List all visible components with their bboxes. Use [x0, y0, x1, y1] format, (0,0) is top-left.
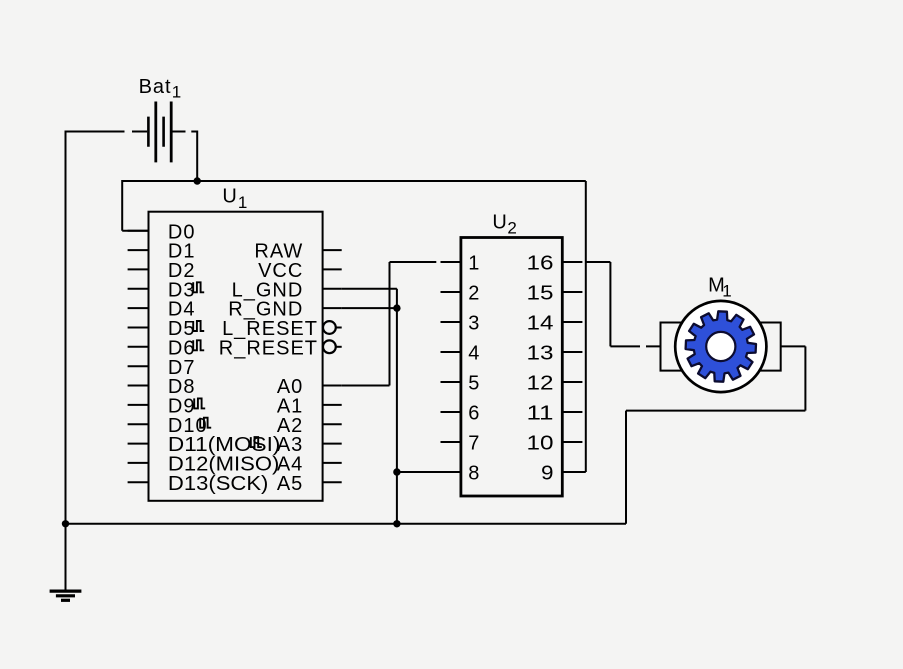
- wire battery negative left segment: [66, 131, 148, 133]
- wire U2 pin16 to motor left terminal: [586, 262, 661, 346]
- svg-text:13: 13: [527, 343, 554, 365]
- label U1: [222, 186, 247, 212]
- pwm glyph D10: [200, 418, 211, 428]
- motor right terminal bracket: [759, 323, 781, 371]
- motor M1: [661, 301, 781, 392]
- motor left terminal bracket: [661, 323, 684, 371]
- node junction pin8: [393, 468, 400, 475]
- pwm glyph D9: [194, 398, 205, 408]
- wire left ground rail: [65, 131, 67, 591]
- pwm glyph D11: [251, 437, 262, 447]
- motor body circle: [675, 301, 766, 392]
- motor gear: [686, 311, 756, 381]
- U1 left pin labels: [168, 221, 281, 495]
- U2 left pin numbers: [468, 253, 480, 485]
- wire A0 to U2 pin 1: [342, 262, 437, 386]
- svg-text:16: 16: [527, 253, 554, 275]
- wire battery positive to junction: [172, 131, 197, 182]
- node junction gnd line / bottom rail: [393, 520, 400, 527]
- node junction left rail / bottom rail: [62, 520, 69, 527]
- svg-text:A5: A5: [277, 473, 303, 495]
- svg-text:11: 11: [527, 403, 554, 425]
- node junction R_GND: [393, 304, 400, 311]
- svg-text:7: 7: [468, 433, 480, 455]
- label U2: [492, 212, 516, 238]
- U2 left pin stubs 1-8: [441, 262, 461, 472]
- svg-text:D13(SCK): D13(SCK): [168, 473, 269, 495]
- svg-text:2: 2: [507, 219, 516, 238]
- svg-text:2: 2: [468, 283, 480, 305]
- wire gnd line to U2 pin 8: [397, 471, 441, 473]
- IC U2 body: [461, 238, 562, 497]
- wire bottom rail: [66, 523, 627, 525]
- pin R_RESET inversion bubble: [323, 340, 336, 353]
- wire R_GND to gnd line: [342, 307, 397, 309]
- svg-text:12: 12: [527, 373, 554, 395]
- ground: [50, 591, 82, 600]
- svg-text:1: 1: [238, 193, 247, 212]
- label Bat1: [139, 76, 182, 102]
- svg-text:10: 10: [527, 433, 554, 455]
- svg-text:1: 1: [172, 83, 181, 102]
- U2 right pin numbers: [527, 253, 554, 485]
- wire bottom rail to motor right terminal: [626, 346, 805, 523]
- svg-text:3: 3: [468, 313, 480, 335]
- IC U1 body: [149, 212, 323, 501]
- svg-text:14: 14: [527, 313, 554, 335]
- svg-text:1: 1: [468, 253, 480, 275]
- svg-text:Bat: Bat: [139, 76, 172, 98]
- svg-text:9: 9: [541, 463, 554, 485]
- U1 right pin stubs RAW,VCC,L_GND,R_GND,A0-A5: [323, 250, 342, 482]
- wire L_GND to gnd rail: [342, 289, 397, 524]
- svg-text:5: 5: [468, 373, 480, 395]
- wire top bus: [122, 180, 586, 182]
- U1 left pin stubs D0-D13: [128, 231, 149, 483]
- svg-text:8: 8: [468, 463, 480, 485]
- pwm glyph D5: [193, 321, 204, 331]
- svg-text:R_RESET: R_RESET: [219, 337, 318, 359]
- pwm glyph D6: [193, 340, 204, 350]
- pin L_RESET inversion bubble: [323, 321, 336, 334]
- node junction battery/top-bus: [194, 177, 201, 184]
- svg-text:1: 1: [722, 282, 731, 301]
- battery Bat1: [148, 102, 171, 163]
- svg-text:U: U: [492, 212, 507, 234]
- label M1: [708, 274, 732, 300]
- motor gear hole: [706, 332, 735, 361]
- U1 right pin labels: [219, 241, 318, 495]
- pwm glyph D3: [193, 282, 204, 292]
- wire top bus down right side to U2 pin 9: [562, 181, 586, 472]
- svg-text:4: 4: [468, 343, 480, 365]
- svg-text:15: 15: [527, 283, 554, 305]
- svg-text:6: 6: [468, 403, 480, 425]
- U2 right pin stubs 16-9: [562, 262, 582, 472]
- wire top bus to D0: [122, 180, 148, 231]
- svg-text:U: U: [222, 186, 237, 208]
